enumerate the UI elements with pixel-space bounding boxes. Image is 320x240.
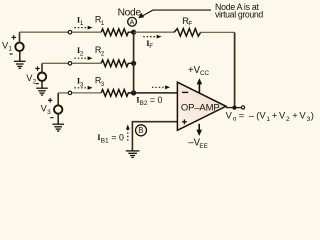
wire apex to output terminal: [226, 107, 241, 109]
svg-text:3: 3: [101, 81, 105, 88]
svg-text:B: B: [138, 126, 143, 135]
svg-text:=: =: [239, 109, 245, 120]
svg-text:V: V: [279, 109, 286, 120]
svg-text:F: F: [188, 21, 192, 28]
non-inverting pin mark: [182, 119, 187, 124]
svg-text:virtual ground: virtual ground: [215, 10, 263, 20]
wire row2 left: [42, 62, 68, 64]
wire RF to feedback corner: [201, 31, 235, 33]
current arrow IF: [143, 35, 161, 39]
node B: [136, 125, 147, 136]
output terminal: [241, 106, 244, 109]
svg-text:= 0: = 0: [111, 132, 124, 142]
svg-text:+: +: [272, 109, 278, 120]
svg-text:): ): [311, 109, 314, 120]
junction row3 / node line: [131, 90, 136, 95]
current arrow IB2: [152, 85, 170, 89]
wire V2 to ground: [41, 81, 43, 88]
terminal node (V2 branch): [68, 62, 72, 66]
svg-text:B1: B1: [101, 138, 109, 145]
ground (V2): [36, 88, 48, 95]
junction row2 / node line: [131, 61, 136, 66]
svg-text:–: –: [249, 109, 255, 120]
-VEE supply arrow: [198, 124, 200, 131]
node A: [131, 30, 136, 35]
wire V1 to ground: [19, 51, 21, 61]
current arrow IB1: [126, 125, 130, 141]
svg-text:2: 2: [286, 116, 290, 123]
svg-text:1: 1: [101, 20, 105, 27]
current arrow I2: [74, 56, 92, 60]
svg-text:2: 2: [80, 51, 84, 58]
wire node line vertical: [133, 32, 135, 93]
svg-text:(V: (V: [256, 109, 266, 120]
svg-text:= 0: = 0: [150, 95, 163, 105]
svg-text:A: A: [130, 17, 135, 26]
callout leader to node A: [142, 10, 211, 16]
op-amp U1: [177, 82, 226, 130]
resistor RF: [174, 29, 201, 37]
wire row1 terminal to R1: [72, 31, 101, 33]
svg-text:3: 3: [80, 81, 84, 88]
current arrow I1: [74, 26, 92, 30]
wire row3 terminal to R3: [72, 92, 101, 94]
svg-text:OP–AMP: OP–AMP: [181, 102, 220, 113]
terminal node (V1 branch): [68, 30, 72, 34]
svg-text:+: +: [292, 109, 298, 120]
wire V3 stub up: [57, 93, 59, 106]
ground (V3): [52, 124, 64, 131]
wire V1 stub up: [19, 32, 21, 43]
svg-text:3: 3: [47, 109, 51, 116]
svg-text:+V: +V: [188, 65, 201, 76]
output equation Vo = -(V1 + V2 + V3): [226, 109, 314, 122]
inverting pin mark: [182, 91, 188, 93]
svg-text:o: o: [233, 116, 237, 123]
voltage source V1: [15, 43, 23, 51]
svg-text:2: 2: [33, 78, 37, 85]
wire row3 left: [58, 92, 68, 94]
svg-text:CC: CC: [200, 70, 210, 77]
resistor R1: [101, 29, 133, 36]
ground (node B): [126, 151, 140, 158]
wire V3 to ground: [57, 114, 59, 125]
wire node A to RF: [134, 31, 174, 33]
voltage source V2: [38, 73, 46, 81]
resistor R2: [101, 60, 133, 67]
wire row1 left: [20, 31, 69, 33]
voltage source V3: [54, 105, 62, 113]
resistor R3: [101, 90, 133, 97]
+VCC supply arrow: [198, 83, 200, 93]
svg-text:V: V: [226, 109, 233, 120]
wire row2 terminal to R2: [72, 62, 101, 64]
terminal node (V3 branch): [68, 91, 72, 95]
svg-text:1: 1: [80, 20, 84, 27]
wire V2 stub up: [41, 63, 43, 72]
svg-text:1: 1: [266, 116, 270, 123]
svg-text:2: 2: [101, 51, 105, 58]
ground (V1): [14, 61, 26, 68]
wire row3 to op-amp inverting input: [134, 92, 178, 94]
output junction: [232, 106, 236, 110]
svg-text:Node: Node: [118, 8, 142, 19]
svg-text:V: V: [299, 109, 306, 120]
svg-text:B2: B2: [140, 100, 148, 107]
current arrow I3: [74, 86, 92, 90]
svg-text:EE: EE: [199, 143, 207, 150]
svg-text:F: F: [149, 43, 153, 50]
svg-text:1: 1: [8, 46, 12, 53]
wire op-amp non-inverting input: [132, 122, 177, 151]
wire feedback vertical down to output: [234, 32, 236, 107]
